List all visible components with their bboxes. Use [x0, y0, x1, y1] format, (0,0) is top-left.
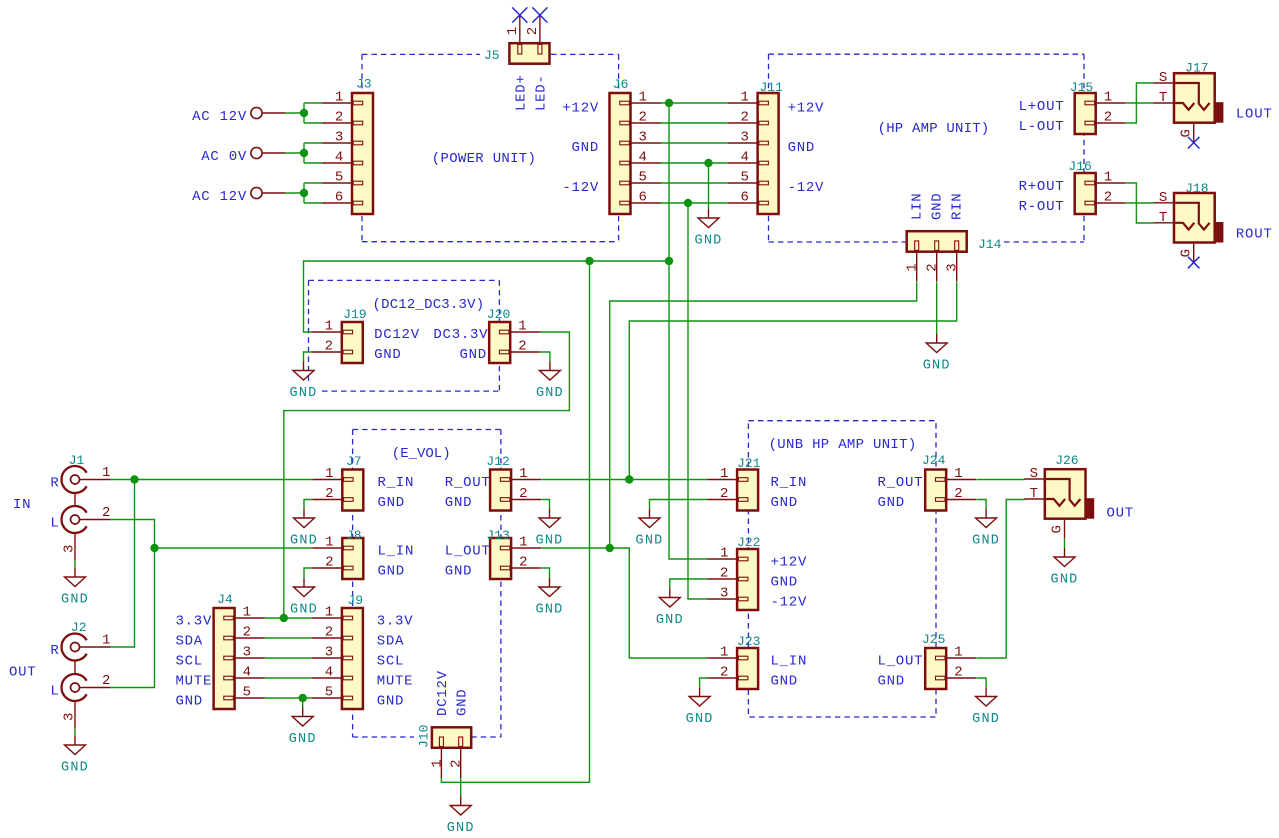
svg-text:5: 5 — [740, 170, 749, 186]
svg-text:R_IN: R_IN — [771, 475, 808, 491]
ground J2-3 — [61, 736, 89, 776]
svg-text:J22: J22 — [737, 535, 760, 550]
svg-text:T: T — [1030, 486, 1039, 502]
wire DC3.3V — [284, 332, 570, 618]
svg-text:3: 3 — [720, 586, 729, 602]
svg-text:1: 1 — [1104, 170, 1113, 186]
svg-text:J13: J13 — [486, 528, 509, 543]
svg-text:2: 2 — [720, 566, 729, 582]
svg-text:-12V: -12V — [562, 180, 599, 196]
svg-text:1: 1 — [325, 466, 334, 482]
svg-text:1: 1 — [429, 759, 445, 768]
svg-text:+12V: +12V — [562, 101, 599, 117]
svg-text:1: 1 — [505, 26, 521, 35]
svg-text:3: 3 — [335, 130, 344, 146]
svg-text:J19: J19 — [343, 307, 366, 322]
svg-text:SDA: SDA — [377, 634, 404, 650]
svg-text:GND: GND — [445, 495, 472, 511]
phone jack J17 — [1154, 61, 1224, 143]
svg-text:J25: J25 — [922, 632, 945, 647]
svg-text:2: 2 — [243, 625, 252, 641]
svg-text:2: 2 — [449, 759, 465, 768]
dashed box (DC12_DC3.3V) — [309, 280, 500, 391]
svg-text:1: 1 — [954, 466, 963, 482]
svg-text:6: 6 — [335, 190, 344, 206]
wire bus J6 to J11 rows 1-6 — [660, 103, 728, 203]
svg-text:2: 2 — [518, 339, 527, 355]
svg-text:J7: J7 — [346, 454, 362, 469]
ground J12-2 — [536, 509, 564, 549]
wire GND — [936, 282, 938, 334]
svg-text:+12V: +12V — [788, 101, 825, 117]
svg-text:GND: GND — [972, 712, 1000, 727]
connector J14 — [905, 231, 1002, 282]
ground J7-2 — [290, 509, 318, 549]
connector J12 — [486, 454, 541, 511]
connector J25 — [922, 632, 976, 689]
svg-text:LOUT: LOUT — [1236, 107, 1273, 123]
svg-text:1: 1 — [335, 90, 344, 106]
svg-text:LED+: LED+ — [513, 74, 529, 111]
svg-text:2: 2 — [954, 486, 963, 502]
svg-text:J6: J6 — [613, 77, 629, 92]
ground J24-2 — [972, 509, 1000, 549]
svg-text:(UNB HP AMP UNIT): (UNB HP AMP UNIT) — [769, 437, 917, 453]
pin labels 3.3V SDA SCL MUTE GND at J4 — [176, 614, 213, 710]
svg-text:J15: J15 — [1070, 80, 1093, 95]
wire GND stub — [708, 163, 710, 209]
AC input terminal AC 12V #1 — [192, 107, 285, 125]
svg-text:T: T — [1159, 210, 1168, 226]
svg-text:R_IN: R_IN — [378, 475, 415, 491]
wire J8-2 to ground — [304, 568, 312, 578]
svg-text:GND: GND — [290, 603, 318, 618]
svg-text:2: 2 — [639, 110, 648, 126]
wire J22-2 to ground — [670, 579, 707, 589]
svg-text:5: 5 — [639, 170, 648, 186]
wire J23-2 to ground — [700, 678, 708, 688]
no-connect X on J17 G — [1188, 137, 1200, 149]
connector J8 — [312, 528, 363, 579]
svg-text:DC3.3V: DC3.3V — [433, 327, 488, 343]
svg-text:J23: J23 — [737, 634, 760, 649]
dashed box (UNB HP AMP UNIT) — [748, 421, 936, 717]
svg-text:L: L — [50, 516, 59, 532]
svg-text:R+OUT: R+OUT — [1019, 179, 1065, 195]
svg-text:1: 1 — [325, 319, 334, 335]
svg-text:L_IN: L_IN — [771, 654, 808, 670]
ground J21-2 — [636, 509, 664, 549]
svg-text:2: 2 — [740, 110, 749, 126]
wire J19-2 to ground — [304, 352, 313, 362]
svg-text:1: 1 — [740, 90, 749, 106]
connector J11 — [728, 80, 784, 214]
svg-text:1: 1 — [325, 605, 334, 621]
svg-text:AC 0V: AC 0V — [201, 149, 247, 165]
svg-text:(POWER UNIT): (POWER UNIT) — [432, 151, 536, 167]
svg-text:J2: J2 — [71, 620, 87, 635]
ground J23-2 — [686, 688, 714, 728]
svg-text:1: 1 — [720, 645, 729, 661]
phone jack J26 — [1024, 453, 1094, 539]
svg-text:2: 2 — [925, 263, 941, 272]
svg-text:SCL: SCL — [176, 654, 203, 670]
wire -12V — [688, 203, 707, 599]
svg-text:GND: GND — [374, 347, 401, 363]
svg-text:IN: IN — [13, 497, 31, 513]
svg-text:GND: GND — [686, 712, 714, 727]
svg-text:J26: J26 — [1055, 453, 1078, 468]
svg-text:GND: GND — [536, 386, 564, 401]
svg-text:GND: GND — [290, 534, 318, 549]
wire J13-2 to ground — [541, 568, 549, 578]
wire J24-2 to ground — [977, 500, 987, 510]
connector J15 — [1070, 80, 1126, 134]
ground J10-2 — [447, 797, 475, 837]
svg-text:3: 3 — [62, 544, 78, 553]
svg-text:G: G — [1050, 524, 1066, 533]
svg-text:2: 2 — [102, 505, 111, 521]
svg-text:L: L — [50, 684, 59, 700]
svg-text:1: 1 — [519, 535, 528, 551]
wire J16-1 to J18 T — [1126, 183, 1154, 223]
svg-text:3.3V: 3.3V — [176, 614, 213, 630]
svg-text:2: 2 — [954, 665, 963, 681]
svg-text:1: 1 — [639, 90, 648, 106]
svg-text:4: 4 — [335, 150, 344, 166]
svg-text:1: 1 — [518, 319, 527, 335]
svg-text:1: 1 — [243, 605, 252, 621]
svg-text:AC 12V: AC 12V — [192, 189, 247, 205]
svg-text:SDA: SDA — [176, 634, 203, 650]
svg-text:J17: J17 — [1185, 61, 1208, 76]
svg-text:6: 6 — [639, 190, 648, 206]
svg-text:2: 2 — [325, 625, 334, 641]
wire J12-2 to ground — [541, 500, 549, 510]
svg-text:J4: J4 — [217, 592, 233, 607]
svg-text:R_OUT: R_OUT — [445, 475, 491, 491]
wire J15-2 to J17 S — [1126, 83, 1154, 123]
ground J13-2 — [536, 578, 564, 618]
svg-text:GND: GND — [61, 593, 89, 608]
svg-text:2: 2 — [519, 555, 528, 571]
wire AC 0V input to J3 pins 3-4 — [285, 143, 322, 163]
wire — [1126, 102, 1154, 104]
connector J5 — [484, 15, 550, 64]
svg-text:RIN: RIN — [949, 193, 965, 220]
svg-text:2: 2 — [525, 26, 541, 35]
svg-text:GND: GND — [1051, 573, 1079, 588]
svg-text:GND: GND — [377, 694, 404, 710]
ground J8-2 — [290, 578, 318, 618]
svg-text:SCL: SCL — [377, 654, 404, 670]
svg-text:1: 1 — [102, 633, 111, 649]
connector J6 — [610, 77, 661, 214]
svg-text:-12V: -12V — [788, 180, 825, 196]
svg-text:2: 2 — [519, 486, 528, 502]
svg-text:(E_VOL): (E_VOL) — [392, 446, 451, 462]
wire J20-2 to ground — [540, 352, 550, 362]
svg-text:L_OUT: L_OUT — [445, 544, 491, 560]
svg-text:J12: J12 — [486, 454, 509, 469]
svg-text:GND: GND — [378, 564, 405, 580]
svg-text:J20: J20 — [487, 307, 510, 322]
phone jack J18 — [1154, 181, 1224, 263]
svg-text:ROUT: ROUT — [1236, 227, 1273, 243]
svg-text:S: S — [1030, 466, 1039, 482]
ground J20-2 — [536, 362, 564, 402]
svg-text:GND: GND — [878, 674, 905, 690]
connector J9 — [312, 593, 363, 709]
svg-text:4: 4 — [243, 665, 252, 681]
svg-text:DC12V: DC12V — [435, 670, 451, 716]
connector J21 — [707, 456, 761, 511]
svg-text:5: 5 — [243, 685, 252, 701]
svg-text:2: 2 — [335, 110, 344, 126]
svg-text:GND: GND — [771, 575, 798, 591]
ground J22-2 — [656, 589, 684, 629]
svg-text:G: G — [1179, 128, 1195, 137]
svg-text:GND: GND — [536, 603, 564, 618]
dashed box (HP AMP UNIT) — [769, 54, 1085, 242]
wire L_OUT: J13-1 to J14-1 and J23-1 — [541, 282, 916, 658]
svg-text:R: R — [50, 643, 59, 659]
svg-text:GND: GND — [695, 234, 723, 249]
wire — [977, 479, 1025, 481]
no-connect X on J18 G — [1188, 257, 1200, 269]
ground J1-3 — [61, 568, 89, 608]
svg-text:2: 2 — [325, 555, 334, 571]
svg-text:GND: GND — [788, 140, 815, 156]
svg-text:5: 5 — [335, 170, 344, 186]
svg-text:4: 4 — [639, 150, 648, 166]
svg-text:GND: GND — [972, 534, 1000, 549]
svg-text:1: 1 — [325, 535, 334, 551]
svg-text:3.3V: 3.3V — [377, 614, 414, 630]
svg-text:GND: GND — [454, 689, 470, 716]
svg-text:3: 3 — [325, 645, 334, 661]
wire IN L: J1-2 to J8-1 and J2-2 — [110, 520, 312, 688]
svg-text:GND: GND — [61, 761, 89, 776]
svg-text:J11: J11 — [760, 80, 784, 95]
pin labels 3.3V SDA SCL MUTE GND at J9 — [377, 614, 414, 710]
svg-text:R-OUT: R-OUT — [1019, 199, 1065, 215]
svg-text:J5: J5 — [484, 48, 500, 63]
svg-text:GND: GND — [929, 193, 945, 220]
connector J13 — [486, 528, 541, 579]
svg-text:LED-: LED- — [534, 74, 550, 111]
svg-text:L+OUT: L+OUT — [1019, 99, 1065, 115]
svg-text:1: 1 — [720, 466, 729, 482]
svg-text:2: 2 — [720, 486, 729, 502]
svg-text:2: 2 — [1104, 110, 1113, 126]
svg-text:6: 6 — [740, 190, 749, 206]
connector J22 — [707, 535, 760, 610]
svg-text:-12V: -12V — [771, 595, 808, 611]
svg-text:R_OUT: R_OUT — [878, 475, 924, 491]
svg-text:GND: GND — [878, 495, 905, 511]
svg-text:L_IN: L_IN — [378, 544, 415, 560]
connector J7 — [312, 454, 363, 511]
svg-text:MUTE: MUTE — [377, 674, 414, 690]
svg-text:3: 3 — [740, 130, 749, 146]
svg-text:1: 1 — [954, 645, 963, 661]
svg-text:1: 1 — [102, 465, 111, 481]
svg-text:T: T — [1159, 90, 1168, 106]
svg-text:LIN: LIN — [909, 193, 925, 220]
AC input terminal AC 12V #3 — [192, 187, 285, 205]
svg-text:J3: J3 — [356, 77, 372, 92]
svg-text:GND: GND — [771, 495, 798, 511]
AC input terminal AC 0V #2 — [201, 147, 285, 165]
wire DC12V net J19-1 / J10-1 / +12V rail — [304, 261, 670, 782]
svg-text:2: 2 — [102, 673, 111, 689]
ground J25-2 — [972, 688, 1000, 728]
wire +12V — [669, 103, 707, 559]
wire J25-1 to J26 T — [977, 500, 1025, 659]
connector J3 — [322, 77, 373, 215]
svg-text:DC12V: DC12V — [374, 327, 420, 343]
svg-text:L_OUT: L_OUT — [878, 654, 924, 670]
wire AC 12V input to J3 pins 1-2 — [285, 103, 322, 123]
wire — [460, 777, 462, 796]
svg-text:2: 2 — [325, 486, 334, 502]
svg-text:4: 4 — [740, 150, 749, 166]
svg-text:GND: GND — [445, 564, 472, 580]
svg-text:5: 5 — [325, 685, 334, 701]
ground J6 row4 — [695, 209, 723, 249]
svg-text:+12V: +12V — [771, 555, 808, 571]
connector J23 — [707, 634, 760, 689]
svg-text:J8: J8 — [346, 528, 362, 543]
RCA jack J2 — [50, 620, 111, 736]
connector J10 — [416, 725, 471, 778]
svg-text:AC 12V: AC 12V — [192, 109, 247, 125]
svg-text:J14: J14 — [978, 237, 1002, 252]
svg-text:1: 1 — [519, 466, 528, 482]
svg-text:3: 3 — [243, 645, 252, 661]
connector J16 — [1068, 159, 1125, 214]
svg-text:2: 2 — [1104, 190, 1113, 206]
svg-text:J24: J24 — [922, 453, 946, 468]
svg-text:J16: J16 — [1068, 159, 1091, 174]
svg-text:J9: J9 — [347, 593, 363, 608]
wire — [1126, 202, 1154, 204]
ground J4/J9 row5 — [289, 708, 317, 748]
svg-text:MUTE: MUTE — [176, 674, 213, 690]
svg-text:(HP AMP UNIT): (HP AMP UNIT) — [878, 121, 990, 137]
svg-text:R: R — [50, 476, 59, 492]
wire IN R: J1-1 to J7-1 and J2-1 — [110, 480, 312, 648]
RCA jack J1 — [50, 453, 111, 568]
svg-text:3: 3 — [639, 130, 648, 146]
svg-text:GND: GND — [771, 674, 798, 690]
ground J26-G — [1051, 548, 1079, 588]
svg-text:GND: GND — [923, 359, 951, 374]
svg-text:J18: J18 — [1185, 181, 1208, 196]
svg-text:4: 4 — [325, 665, 334, 681]
connector J19 — [312, 307, 367, 363]
wire J7-2 to ground — [304, 500, 312, 510]
svg-text:S: S — [1159, 190, 1168, 206]
dashed box (E_VOL) — [353, 430, 501, 738]
svg-text:L-OUT: L-OUT — [1019, 119, 1065, 135]
no-connect X on J5 pin 2 — [532, 7, 547, 22]
wire GND — [302, 698, 304, 708]
svg-text:1: 1 — [720, 546, 729, 562]
svg-text:2: 2 — [325, 339, 334, 355]
svg-text:GND: GND — [460, 347, 487, 363]
svg-text:(DC12_DC3.3V): (DC12_DC3.3V) — [373, 297, 485, 313]
svg-text:GND: GND — [572, 140, 599, 156]
wire — [1064, 539, 1066, 548]
wire R_OUT: J12-1 to J21-1 and J14-3 — [541, 282, 956, 479]
svg-text:OUT: OUT — [1107, 506, 1134, 522]
wire J25-2 to ground — [977, 678, 987, 688]
svg-text:OUT: OUT — [9, 665, 36, 681]
svg-text:J10: J10 — [416, 725, 431, 748]
svg-text:GND: GND — [289, 732, 317, 747]
svg-text:GND: GND — [656, 613, 684, 628]
svg-text:G: G — [1179, 248, 1195, 257]
dashed box (POWER UNIT) — [362, 54, 619, 241]
svg-text:3: 3 — [945, 263, 961, 272]
connector J4 — [214, 592, 265, 709]
no-connect X on J5 pin 1 — [512, 7, 527, 22]
connector J24 — [922, 453, 976, 511]
svg-text:2: 2 — [720, 665, 729, 681]
svg-text:GND: GND — [378, 495, 405, 511]
svg-text:3: 3 — [62, 712, 78, 721]
svg-text:1: 1 — [1104, 90, 1113, 106]
svg-text:S: S — [1159, 70, 1168, 86]
ground J19-2 — [290, 362, 318, 402]
svg-text:GND: GND — [636, 534, 664, 549]
svg-text:GND: GND — [290, 386, 318, 401]
wire AC 12V input to J3 pins 5-6 — [285, 183, 322, 203]
wire J21-2 to ground — [650, 500, 708, 510]
svg-text:1: 1 — [905, 263, 921, 272]
svg-text:GND: GND — [536, 534, 564, 549]
wire bus J4 to J9 rows 1-5 — [264, 618, 312, 698]
svg-text:J21: J21 — [737, 456, 761, 471]
svg-text:J1: J1 — [69, 453, 85, 468]
svg-text:GND: GND — [447, 821, 475, 836]
connector J20 — [487, 307, 540, 363]
svg-text:GND: GND — [176, 694, 203, 710]
ground J14-2 — [923, 334, 951, 374]
